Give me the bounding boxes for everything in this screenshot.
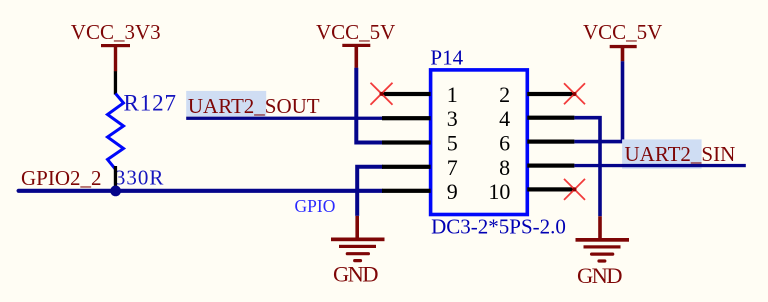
- pin 10: [527, 187, 574, 191]
- junction dot: [110, 186, 121, 197]
- pin 9: [382, 189, 431, 193]
- ground symbol left: [331, 238, 385, 263]
- power symbol VCC_5V left: [316, 20, 395, 68]
- svg-text:DC3-2*5PS-2.0: DC3-2*5PS-2.0: [431, 215, 566, 239]
- svg-text:4: 4: [499, 106, 510, 131]
- svg-text:5: 5: [447, 131, 458, 156]
- wire VCC_5V to pin 5: [356, 68, 383, 143]
- ground stem right (dark red): [598, 216, 602, 238]
- wire pin 6 to VCC_5V right: [574, 61, 622, 141]
- net label UART2_SIN highlight: [622, 139, 702, 168]
- svg-text:GND: GND: [333, 262, 379, 287]
- resistor R127: [108, 94, 124, 170]
- ground stem left (dark red): [355, 216, 359, 238]
- svg-text:GND: GND: [577, 263, 623, 288]
- pin 3: [382, 116, 431, 120]
- resistor R127 bottom pin: [114, 166, 117, 188]
- wire UART2_SOUT to pin 3: [186, 117, 383, 120]
- svg-text:GPIO2_2: GPIO2_2: [21, 166, 102, 190]
- power symbol VCC_3V3: [71, 20, 161, 71]
- ground symbol right: [576, 238, 630, 263]
- svg-text:UART2_SOUT: UART2_SOUT: [188, 94, 320, 118]
- svg-text:P14: P14: [430, 46, 463, 70]
- svg-text:3: 3: [447, 106, 458, 131]
- svg-text:VCC_5V: VCC_5V: [316, 20, 395, 44]
- svg-text:330R: 330R: [115, 165, 163, 189]
- pin 4: [527, 116, 574, 120]
- svg-text:R127: R127: [124, 91, 177, 116]
- pin 2: [527, 92, 574, 96]
- svg-text:VCC_5V: VCC_5V: [583, 20, 662, 44]
- pin 1: [382, 92, 431, 96]
- resistor R127 top pin: [114, 71, 117, 94]
- svg-text:GPIO: GPIO: [295, 196, 336, 216]
- svg-text:6: 6: [499, 131, 510, 156]
- wire GPIO2_2 to pin 9: [19, 189, 382, 193]
- pin 8: [527, 164, 574, 168]
- net label UART2_SOUT highlight: [186, 91, 266, 116]
- svg-text:2: 2: [499, 82, 510, 107]
- svg-text:7: 7: [447, 155, 458, 180]
- svg-text:UART2_SIN: UART2_SIN: [625, 142, 736, 166]
- wire pin 7 to ground: [357, 167, 383, 216]
- no-connect X pin 1: [371, 83, 393, 105]
- wire pin 4 to ground right: [574, 118, 600, 217]
- svg-text:1: 1: [447, 82, 458, 107]
- pin 5: [382, 140, 431, 144]
- no-connect X pin 10: [564, 179, 585, 200]
- svg-text:10: 10: [488, 179, 510, 204]
- power symbol VCC_5V right: [583, 20, 662, 61]
- pin 7: [382, 165, 431, 169]
- pin 6: [527, 140, 574, 144]
- svg-text:8: 8: [499, 155, 510, 180]
- svg-text:VCC_3V3: VCC_3V3: [71, 20, 161, 44]
- no-connect X pin 2: [564, 83, 585, 104]
- svg-text:9: 9: [447, 179, 458, 204]
- wire pin 8 UART2_SIN: [574, 164, 745, 167]
- connector P14 box: [431, 70, 528, 215]
